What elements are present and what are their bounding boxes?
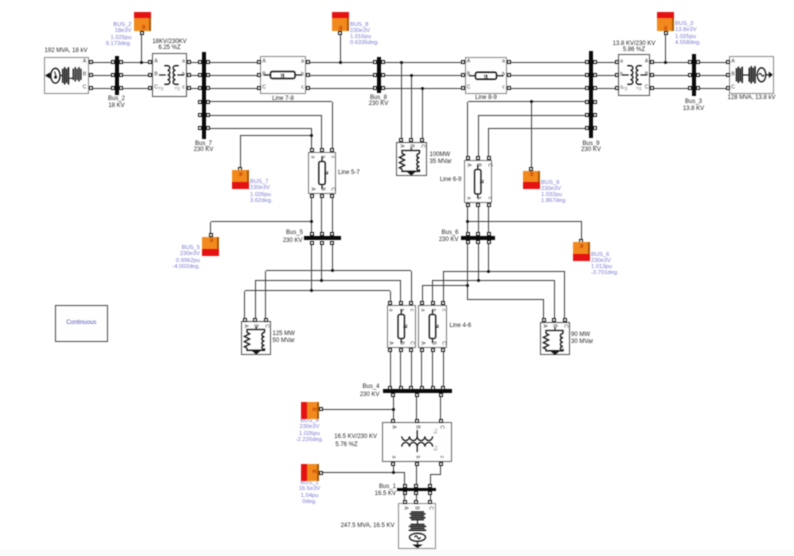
svg-text:π: π (478, 180, 486, 184)
svg-text:π: π (432, 324, 440, 328)
svg-text:π: π (402, 324, 410, 328)
svg-text:π: π (322, 171, 330, 175)
